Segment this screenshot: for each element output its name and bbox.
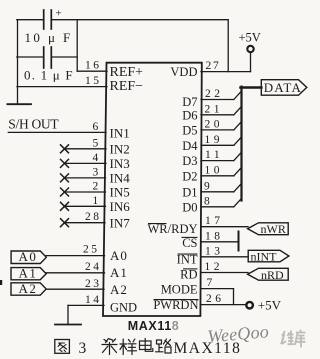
cross IN7	[60, 218, 69, 227]
tag nWR	[248, 223, 289, 235]
路 glyph	[156, 339, 172, 353]
svg-text:nRD: nRD	[261, 268, 284, 282]
svg-text:3: 3	[93, 166, 101, 178]
crosses on unused inputs	[60, 144, 69, 227]
svg-text:27: 27	[206, 60, 221, 72]
svg-text:D7: D7	[182, 95, 197, 109]
svg-text:14: 14	[85, 294, 102, 306]
svg-text:26: 26	[206, 293, 225, 305]
cross IN4	[60, 173, 69, 182]
svg-text:19: 19	[205, 134, 224, 146]
svg-text:D3: D3	[182, 154, 197, 168]
tag A1	[11, 268, 46, 280]
svg-text:24: 24	[85, 261, 102, 273]
capacitor C1 10uF plates	[43, 10, 45, 29]
图 glyph	[55, 340, 70, 354]
svg-text:17: 17	[205, 215, 224, 227]
采 glyph	[102, 339, 117, 355]
+5V terminal top	[247, 46, 253, 52]
pin numbers left	[83, 60, 102, 306]
svg-text:15: 15	[85, 75, 102, 87]
wire pin27 VDD	[201, 71, 251, 73]
svg-text:MAX118: MAX118	[128, 319, 180, 333]
wire pin11 D3	[201, 160, 234, 162]
wire vertical down to VDD	[227, 20, 229, 72]
wire pin17 nWR	[201, 226, 248, 228]
wire pin7 to pin26 vertical	[233, 289, 235, 305]
svg-text:20: 20	[205, 118, 224, 130]
wire +5V top drop	[250, 52, 252, 71]
ground (top-left)	[7, 103, 31, 105]
svg-text:3: 3	[79, 340, 87, 357]
svg-text:VDD: VDD	[170, 65, 197, 79]
wire pin24 A1	[46, 272, 105, 274]
svg-text:IN4: IN4	[110, 171, 131, 186]
svg-text:IN6: IN6	[110, 199, 131, 214]
wire pin21 D6	[201, 114, 234, 116]
svg-text:A2: A2	[110, 282, 128, 297]
wire pin7 MODE	[201, 288, 234, 290]
chip labels left column	[110, 65, 144, 315]
wire vertical cap box right	[76, 20, 78, 71]
tag nRD	[248, 268, 289, 280]
bus DATA vertical	[240, 87, 242, 201]
caption text 3 and MAX118	[79, 340, 242, 357]
watermark WeeQoo	[207, 321, 306, 347]
cross IN6	[60, 202, 69, 211]
wire pin8 D0	[201, 206, 234, 208]
svg-text:D2: D2	[182, 169, 197, 183]
svg-text:9: 9	[204, 180, 213, 192]
svg-text:6: 6	[93, 121, 101, 133]
样 glyph	[120, 339, 137, 355]
watermark char wei	[281, 331, 294, 345]
svg-text:21: 21	[205, 103, 224, 115]
bus to DATA tag connector	[241, 86, 262, 89]
pin numbers right	[204, 60, 225, 305]
svg-text:D0: D0	[182, 200, 197, 214]
wire pin26 PWRDN to +5V	[201, 304, 247, 306]
svg-text:A1: A1	[19, 266, 38, 281]
tag DATA	[261, 80, 307, 96]
wire pin12 nRD	[201, 272, 248, 274]
wire middle (cap C2 row)	[17, 56, 43, 58]
wire pin2 IN5	[65, 191, 106, 193]
svg-text:+: +	[56, 8, 62, 20]
svg-text:REF−: REF−	[110, 79, 144, 94]
wire pin14 GND	[68, 304, 104, 306]
wire top (+5V node, cap C1 to VDD)	[17, 19, 43, 21]
svg-text:D4: D4	[182, 139, 198, 153]
cross IN5	[60, 188, 69, 197]
svg-text:D6: D6	[182, 109, 197, 123]
wire pin3 IN4	[65, 177, 106, 179]
wire pin1 IN6	[65, 205, 106, 207]
svg-text:8: 8	[204, 195, 213, 207]
svg-text:1: 1	[93, 195, 101, 207]
caption: 图 3 采样电路 MAX118	[55, 339, 171, 355]
svg-text:IN1: IN1	[110, 125, 130, 140]
wire pin28 IN7	[65, 222, 106, 224]
svg-text:0. 1 μ F: 0. 1 μ F	[24, 68, 74, 83]
svg-text:A2: A2	[19, 281, 38, 296]
wire pin4 IN3	[65, 162, 107, 164]
cross IN3	[60, 159, 69, 168]
svg-text:IN7: IN7	[110, 215, 131, 230]
wire pin15 REF-	[17, 86, 107, 88]
wire pin5 IN2	[65, 148, 107, 150]
tag nINT	[248, 250, 289, 261]
svg-text:GND: GND	[110, 301, 137, 315]
watermark char ku	[295, 330, 306, 348]
capacitor C2 0.1uF plates	[43, 47, 45, 68]
svg-text:5: 5	[93, 137, 101, 149]
pin18 terminator bar	[238, 232, 240, 251]
svg-text:IN5: IN5	[110, 185, 130, 200]
chip labels right column	[148, 65, 199, 312]
svg-text:IN2: IN2	[110, 142, 130, 157]
svg-text:10: 10	[205, 164, 224, 176]
wire pin19 D4	[201, 144, 234, 146]
svg-text:11: 11	[205, 149, 223, 161]
svg-text:D1: D1	[182, 185, 197, 199]
svg-text:nINT: nINT	[251, 250, 278, 264]
svg-text:IN3: IN3	[110, 156, 130, 171]
svg-text:2: 2	[93, 181, 101, 193]
wire pin16 REF+	[77, 70, 107, 72]
svg-text:S/H OUT: S/H OUT	[8, 117, 59, 132]
svg-text:nWR: nWR	[261, 222, 286, 236]
svg-text:22: 22	[205, 88, 224, 100]
chip U1 MAX118 outline	[103, 63, 202, 316]
wire pin20 D5	[201, 129, 234, 131]
wire pin9 D1	[201, 191, 234, 193]
tag A0	[11, 80, 307, 296]
left edge mark	[0, 280, 2, 285]
wire pin10 D2	[201, 175, 234, 177]
tag A2	[11, 283, 46, 295]
wire pin13 nINT	[201, 256, 248, 258]
svg-text:D5: D5	[182, 124, 197, 138]
svg-text:A0: A0	[19, 249, 38, 264]
ground (pin14)	[67, 305, 69, 324]
svg-text:4: 4	[93, 152, 101, 164]
电 glyph	[140, 339, 153, 352]
svg-text:MODE: MODE	[161, 283, 198, 297]
svg-text:REF+: REF+	[110, 65, 144, 80]
svg-text:28: 28	[85, 211, 102, 223]
svg-text:12: 12	[205, 261, 224, 273]
svg-text:A1: A1	[110, 265, 128, 280]
wire pin6 S/H OUT	[8, 131, 106, 133]
svg-text:+5V: +5V	[239, 31, 261, 45]
wire pin25 A0	[46, 255, 105, 257]
svg-text:10 μ F: 10 μ F	[25, 30, 73, 45]
wire pin23 A2	[46, 288, 104, 290]
svg-text:18: 18	[205, 230, 224, 242]
svg-text:23: 23	[85, 278, 102, 290]
ground rail left vertical	[17, 20, 19, 105]
svg-text:A0: A0	[110, 248, 128, 263]
svg-text:25: 25	[83, 244, 100, 256]
cross IN2	[60, 144, 69, 153]
wire pin18 CS	[201, 241, 239, 243]
+5V terminal bottom	[246, 302, 253, 309]
svg-text:7: 7	[207, 277, 216, 289]
svg-text:+5V: +5V	[258, 297, 282, 312]
svg-text:DATA: DATA	[264, 80, 302, 95]
svg-text:13: 13	[205, 245, 224, 257]
svg-text:16: 16	[85, 60, 102, 72]
overlines for active-low labels	[148, 224, 199, 300]
wire pin22 D7	[201, 99, 234, 101]
